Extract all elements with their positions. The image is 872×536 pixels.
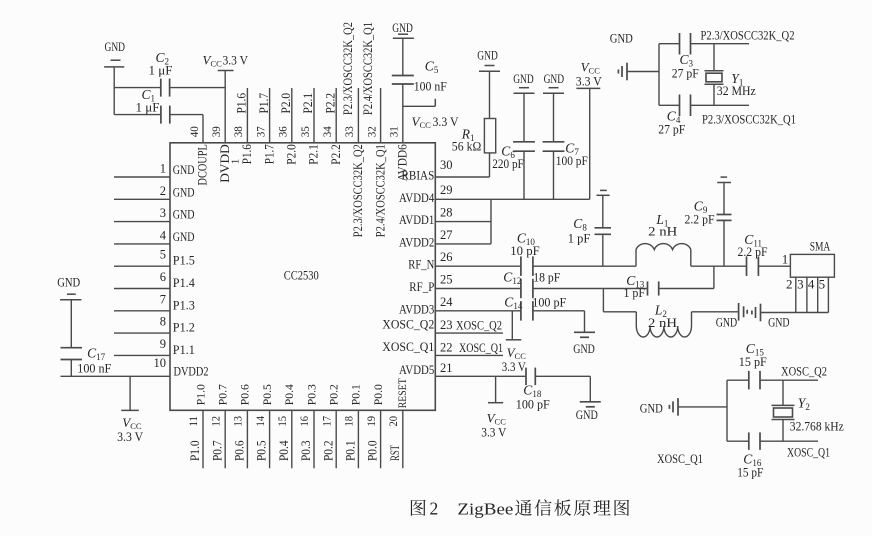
svg-text:P2.0: P2.0: [279, 93, 293, 114]
svg-text:1 pF: 1 pF: [568, 231, 591, 246]
svg-text:P1.4: P1.4: [173, 275, 195, 290]
svg-text:31: 31: [387, 126, 401, 137]
svg-text:19: 19: [364, 416, 378, 427]
svg-text:P2.1: P2.1: [301, 93, 315, 114]
svg-text:2.2 pF: 2.2 pF: [738, 244, 768, 259]
svg-text:GND: GND: [716, 315, 738, 330]
svg-text:P0.0: P0.0: [371, 384, 385, 405]
svg-text:37: 37: [253, 126, 267, 137]
svg-text:P1.7: P1.7: [257, 93, 271, 114]
svg-text:220 pF: 220 pF: [492, 156, 524, 171]
svg-text:P0.6: P0.6: [233, 441, 247, 462]
svg-text:P2.4/XOSCC32K_Q1: P2.4/XOSCC32K_Q1: [373, 144, 387, 237]
svg-text:14: 14: [253, 416, 267, 427]
svg-text:1 μF: 1 μF: [149, 63, 173, 78]
svg-text:GND: GND: [573, 341, 595, 356]
svg-text:56 kΩ: 56 kΩ: [452, 139, 482, 154]
svg-text:VCC: VCC: [203, 53, 223, 69]
svg-text:100 nF: 100 nF: [77, 361, 111, 376]
svg-text:17: 17: [319, 416, 333, 427]
svg-text:26: 26: [440, 250, 453, 264]
svg-text:11: 11: [186, 416, 200, 427]
svg-text:P0.7: P0.7: [216, 384, 230, 405]
svg-text:P1.7: P1.7: [262, 144, 276, 164]
svg-text:15 pF: 15 pF: [739, 354, 767, 369]
svg-text:3: 3: [160, 206, 166, 220]
svg-text:32 MHz: 32 MHz: [717, 83, 756, 98]
svg-text:P2.3/XOSCC32K_Q2: P2.3/XOSCC32K_Q2: [341, 22, 355, 115]
svg-text:P0.6: P0.6: [238, 384, 252, 405]
svg-text:13: 13: [231, 416, 245, 427]
svg-text:15 pF: 15 pF: [737, 465, 763, 480]
svg-text:P2.4/XOSCC32K_Q1: P2.4/XOSCC32K_Q1: [361, 22, 375, 115]
svg-text:P2.1: P2.1: [307, 144, 321, 165]
svg-text:1 μF: 1 μF: [136, 100, 160, 115]
svg-text:XOSC_Q1: XOSC_Q1: [382, 339, 434, 354]
svg-text:AVDD4: AVDD4: [399, 190, 435, 205]
svg-text:GND: GND: [173, 207, 195, 222]
svg-text:P0.0: P0.0: [366, 441, 380, 462]
svg-text:P0.1: P0.1: [349, 384, 363, 405]
svg-text:CC2530: CC2530: [284, 268, 319, 283]
svg-text:32.768 kHz: 32.768 kHz: [790, 419, 844, 434]
svg-text:P0.1: P0.1: [344, 441, 358, 462]
svg-text:8: 8: [160, 315, 166, 329]
svg-text:P1.6: P1.6: [235, 93, 249, 114]
svg-text:AVDD6: AVDD6: [396, 144, 410, 181]
svg-text:P0.5: P0.5: [255, 441, 269, 462]
svg-text:XOSC_Q2: XOSC_Q2: [456, 318, 502, 333]
svg-text:6: 6: [160, 270, 166, 284]
svg-text:ZigBee: ZigBee: [457, 500, 513, 519]
svg-text:GND: GND: [477, 48, 498, 63]
svg-text:4: 4: [160, 228, 167, 242]
svg-text:C12: C12: [503, 270, 521, 287]
svg-text:2.2 pF: 2.2 pF: [685, 212, 715, 227]
svg-text:P1.3: P1.3: [173, 297, 195, 312]
svg-text:12: 12: [208, 416, 222, 427]
svg-text:27 pF: 27 pF: [672, 66, 699, 81]
svg-text:RF_P: RF_P: [409, 279, 434, 294]
svg-text:P1.5: P1.5: [173, 253, 195, 268]
svg-text:P0.5: P0.5: [260, 384, 274, 405]
svg-text:GND: GND: [544, 71, 565, 86]
svg-text:GND: GND: [640, 401, 663, 416]
svg-text:1: 1: [782, 251, 789, 266]
svg-text:100 nF: 100 nF: [414, 79, 447, 94]
svg-text:24: 24: [440, 295, 453, 309]
svg-text:P1.0: P1.0: [188, 441, 202, 462]
svg-text:P2.3/XOSCC32K_Q2: P2.3/XOSCC32K_Q2: [701, 28, 795, 43]
svg-text:RF_N: RF_N: [408, 257, 434, 272]
svg-text:DCOUPL: DCOUPL: [196, 144, 210, 185]
svg-text:1: 1: [230, 159, 242, 165]
svg-text:7: 7: [160, 292, 166, 306]
svg-text:36: 36: [276, 126, 290, 137]
svg-text:3: 3: [797, 276, 804, 291]
svg-text:27: 27: [440, 228, 453, 242]
svg-text:P0.4: P0.4: [277, 440, 291, 461]
svg-text:GND: GND: [173, 184, 195, 199]
svg-text:3.3 V: 3.3 V: [223, 53, 249, 68]
svg-text:AVDD1: AVDD1: [399, 212, 434, 227]
svg-text:5: 5: [160, 248, 166, 262]
svg-text:35: 35: [298, 126, 312, 137]
svg-text:SMA: SMA: [810, 239, 831, 254]
svg-text:100 pF: 100 pF: [532, 295, 566, 310]
svg-text:39: 39: [209, 126, 223, 137]
svg-text:10: 10: [154, 356, 167, 370]
svg-text:34: 34: [320, 126, 334, 137]
svg-text:P2.3/XOSCC32K_Q1: P2.3/XOSCC32K_Q1: [702, 112, 796, 127]
svg-text:GND: GND: [576, 407, 598, 422]
svg-text:16: 16: [297, 416, 311, 427]
svg-text:GND: GND: [105, 39, 126, 54]
svg-text:GND: GND: [173, 162, 195, 177]
svg-text:GND: GND: [610, 31, 633, 46]
svg-text:AVDD5: AVDD5: [399, 362, 434, 377]
svg-text:10 pF: 10 pF: [510, 243, 539, 258]
svg-text:P2.2: P2.2: [329, 144, 343, 165]
svg-text:4: 4: [808, 276, 815, 291]
svg-text:GND: GND: [768, 315, 790, 330]
svg-text:P1.0: P1.0: [193, 384, 207, 405]
svg-text:GND: GND: [173, 229, 195, 244]
svg-text:XOSC_Q1: XOSC_Q1: [787, 445, 830, 460]
svg-text:P1.1: P1.1: [173, 342, 195, 357]
svg-text:18 pF: 18 pF: [533, 270, 560, 285]
svg-text:VCC: VCC: [412, 114, 432, 130]
svg-text:XOSC_Q1: XOSC_Q1: [459, 340, 503, 355]
svg-text:C14: C14: [504, 295, 523, 312]
svg-text:18: 18: [342, 416, 356, 427]
svg-text:AVDD2: AVDD2: [399, 234, 434, 249]
svg-text:2 nH: 2 nH: [648, 223, 677, 238]
svg-text:P2.2: P2.2: [323, 93, 337, 114]
svg-text:P0.3: P0.3: [304, 384, 318, 405]
svg-text:100 pF: 100 pF: [516, 397, 550, 412]
svg-text:DVDD2: DVDD2: [174, 363, 209, 378]
svg-text:AVDD3: AVDD3: [399, 301, 434, 316]
svg-text:2: 2: [786, 276, 793, 291]
svg-text:1 pF: 1 pF: [624, 285, 646, 300]
svg-text:P0.2: P0.2: [321, 441, 335, 462]
svg-text:P2.3/XOSCC32K_Q2: P2.3/XOSCC32K_Q2: [351, 144, 365, 237]
svg-text:Y2: Y2: [798, 396, 810, 413]
svg-text:21: 21: [440, 361, 453, 375]
svg-text:P1.2: P1.2: [173, 320, 195, 335]
svg-text:GND: GND: [392, 20, 413, 35]
svg-text:30: 30: [440, 158, 453, 172]
svg-text:RESET: RESET: [395, 378, 409, 409]
svg-text:RST: RST: [388, 445, 402, 461]
svg-text:2: 2: [430, 499, 439, 519]
svg-text:XOSC_Q1: XOSC_Q1: [657, 451, 703, 466]
svg-text:40: 40: [187, 126, 201, 137]
svg-text:3.3 V: 3.3 V: [117, 429, 144, 444]
svg-text:33: 33: [342, 126, 356, 137]
svg-text:P2.0: P2.0: [285, 144, 299, 165]
svg-text:22: 22: [440, 340, 453, 354]
svg-text:3.3 V: 3.3 V: [481, 425, 507, 440]
svg-text:5: 5: [819, 276, 826, 291]
svg-text:P0.4: P0.4: [282, 384, 296, 405]
svg-text:1: 1: [160, 162, 166, 176]
svg-text:29: 29: [440, 183, 453, 197]
svg-text:3.3 V: 3.3 V: [502, 359, 527, 374]
svg-text:P0.2: P0.2: [327, 384, 341, 405]
svg-text:15: 15: [275, 416, 289, 427]
svg-text:P0.3: P0.3: [299, 441, 313, 462]
svg-text:3.3 V: 3.3 V: [433, 114, 460, 129]
svg-text:9: 9: [160, 337, 166, 351]
svg-text:3.3 V: 3.3 V: [576, 74, 603, 89]
svg-text:27 pF: 27 pF: [658, 122, 685, 137]
svg-text:38: 38: [231, 126, 245, 137]
svg-text:XOSC_Q2: XOSC_Q2: [781, 364, 827, 379]
svg-text:23: 23: [440, 318, 453, 332]
svg-text:C5: C5: [425, 59, 439, 76]
svg-text:20: 20: [386, 416, 400, 427]
svg-text:32: 32: [364, 126, 378, 137]
svg-text:XOSC_Q2: XOSC_Q2: [382, 317, 434, 332]
svg-text:2 nH: 2 nH: [648, 315, 677, 330]
svg-text:GND: GND: [513, 71, 534, 86]
svg-text:100 pF: 100 pF: [556, 153, 588, 168]
svg-text:2: 2: [160, 184, 166, 198]
svg-text:25: 25: [440, 273, 453, 287]
svg-text:GND: GND: [57, 275, 80, 290]
svg-text:28: 28: [440, 206, 453, 220]
svg-text:P0.7: P0.7: [210, 441, 224, 462]
svg-text:P1.6: P1.6: [240, 144, 254, 164]
